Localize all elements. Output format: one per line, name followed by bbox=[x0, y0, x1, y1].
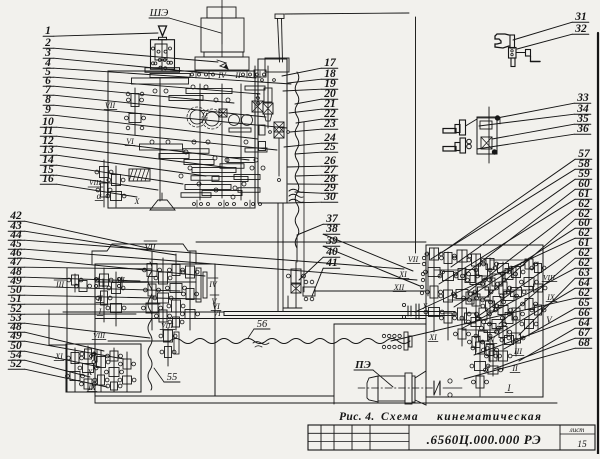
roman II label bbox=[234, 71, 241, 80]
feed box far-left shaft III group bbox=[49, 268, 122, 392]
svg-text:55: 55 bbox=[167, 372, 178, 383]
PE motor body bbox=[358, 371, 433, 405]
svg-text:52: 52 bbox=[10, 358, 22, 370]
svg-text:II: II bbox=[511, 364, 518, 373]
svg-text:IV: IV bbox=[486, 335, 496, 344]
svg-text:Схема: Схема bbox=[381, 411, 419, 423]
label 55 bbox=[154, 368, 180, 383]
label PE bbox=[354, 359, 393, 387]
lower feed box bbox=[66, 344, 141, 392]
svg-text:кинематическая: кинематическая bbox=[437, 411, 542, 423]
bed left diagonal bbox=[94, 396, 96, 403]
apron lower shafts bbox=[470, 336, 503, 396]
belt bracket bbox=[254, 58, 289, 77]
component 33-36 assembly bbox=[443, 107, 500, 163]
svg-text:25: 25 bbox=[323, 141, 336, 153]
svg-text:IX: IX bbox=[546, 293, 556, 302]
bed bottom line 2 bbox=[95, 402, 557, 404]
apron lower roman numerals bbox=[486, 335, 524, 393]
svg-text:VIII: VIII bbox=[543, 273, 556, 282]
svg-text:XII: XII bbox=[393, 283, 405, 292]
svg-text:VII: VII bbox=[145, 242, 157, 252]
belt drive arrow under motor bbox=[217, 60, 228, 69]
apron central extra gears bbox=[460, 264, 518, 345]
svg-text:30: 30 bbox=[323, 191, 336, 203]
feed cone gear cluster bbox=[142, 252, 187, 334]
svg-text:36: 36 bbox=[576, 123, 589, 135]
roman VIII near chain gear bbox=[160, 321, 175, 330]
bed bottom line 1 bbox=[97, 395, 334, 397]
svg-text:38: 38 bbox=[325, 223, 338, 235]
svg-text:VIII: VIII bbox=[89, 178, 102, 187]
motor compartment box bbox=[334, 324, 426, 404]
column x-box selector bbox=[263, 103, 273, 121]
roman VI label bbox=[125, 137, 135, 146]
svg-text:VI: VI bbox=[126, 137, 134, 146]
svg-text:16: 16 bbox=[42, 173, 54, 185]
motor ShE body bbox=[195, 0, 249, 70]
svg-text:IV: IV bbox=[217, 71, 227, 80]
headstock gear bars bbox=[132, 74, 268, 198]
svg-text:IX: IX bbox=[87, 383, 97, 392]
figure caption bbox=[339, 411, 542, 423]
gear on chain shaft bbox=[159, 328, 179, 366]
shaft lines in headstock bbox=[160, 66, 255, 201]
triple wave mark bbox=[289, 189, 303, 202]
roman IV label bbox=[217, 71, 227, 80]
line to top right bbox=[285, 13, 409, 14]
feed box outline bbox=[95, 264, 215, 396]
svg-text:II: II bbox=[96, 294, 103, 303]
input gear housing bbox=[145, 40, 180, 72]
feed rod VI bar bbox=[224, 312, 455, 316]
clutch small left bbox=[90, 350, 98, 362]
svg-text:1: 1 bbox=[45, 25, 51, 37]
svg-text:23: 23 bbox=[323, 118, 336, 130]
lead screw wavy line bbox=[170, 339, 410, 344]
svg-text:VIII: VIII bbox=[93, 331, 106, 340]
svg-text:ПЭ: ПЭ bbox=[354, 359, 371, 371]
leader labels 1-16 (headstock parts) bbox=[40, 25, 291, 197]
x-box 2 bbox=[274, 122, 284, 132]
svg-text:VII: VII bbox=[408, 255, 419, 264]
svg-text:31: 31 bbox=[574, 11, 587, 23]
apron box outline bbox=[426, 245, 543, 397]
column gear bars left bbox=[259, 125, 266, 151]
extra x-box gear engage bbox=[219, 109, 227, 117]
headstock bottom gear teeth marks bbox=[193, 200, 262, 207]
svg-text:VII: VII bbox=[105, 101, 116, 110]
svg-text:15: 15 bbox=[577, 440, 587, 450]
label 56 bbox=[248, 319, 270, 347]
apron tie lines bbox=[434, 260, 538, 330]
svg-text:68: 68 bbox=[578, 337, 590, 349]
leader labels 42-53 and 48-52 (feed box parts) bbox=[8, 210, 417, 387]
belt pulley top bbox=[275, 14, 284, 19]
lead screw straight part bbox=[92, 331, 170, 341]
svg-text:XI: XI bbox=[54, 352, 63, 361]
svg-text:Рис. 4.: Рис. 4. bbox=[339, 411, 375, 423]
headstock outline bbox=[108, 71, 255, 208]
left lower gear group VIII bbox=[88, 160, 141, 207]
leader labels 31-32 bbox=[513, 11, 589, 49]
svg-text:IV: IV bbox=[208, 280, 218, 289]
column lower vertical lines bbox=[278, 203, 283, 311]
vertical chain to 55 bbox=[148, 262, 152, 390]
leader labels 37-41 bbox=[297, 213, 420, 296]
hatched clutch block bbox=[129, 169, 150, 181]
clamp fork 31 bbox=[495, 34, 540, 67]
title block sheet label bbox=[569, 426, 587, 450]
arrow into input shaft bbox=[159, 26, 167, 40]
roman VII and left gear group bbox=[104, 88, 146, 135]
svg-text:III: III bbox=[55, 280, 64, 289]
headstock small circles bbox=[150, 85, 265, 199]
label ShE (main motor) bbox=[149, 7, 221, 33]
svg-text:XI: XI bbox=[398, 270, 407, 279]
leader labels 17-30 (drive parts) bbox=[282, 57, 338, 203]
shaft XII line bbox=[315, 290, 426, 292]
svg-text:XI: XI bbox=[428, 333, 437, 342]
motor coupling I bbox=[434, 379, 462, 397]
bottom support trapezoid bbox=[150, 193, 175, 210]
svg-text:лист: лист bbox=[569, 426, 585, 434]
headstock top gear teeth marks bbox=[191, 71, 266, 78]
tailstock vertical line bbox=[415, 17, 417, 253]
svg-text:III: III bbox=[513, 347, 522, 356]
vertical wavy chain line bbox=[295, 72, 299, 262]
paper edge right bbox=[597, 33, 599, 454]
feed horizontal shaft bbox=[95, 281, 196, 283]
apron roman numerals right bbox=[542, 273, 557, 325]
column feed shaft upper bbox=[257, 66, 276, 128]
svg-text:ШЭ: ШЭ bbox=[149, 7, 169, 19]
svg-text:56: 56 bbox=[257, 319, 268, 330]
svg-text:VIII: VIII bbox=[161, 321, 174, 330]
shaft X long line bbox=[63, 312, 426, 319]
clutch on shaft X bbox=[402, 302, 428, 319]
belt lines bbox=[278, 19, 283, 63]
split nut on lead screw bbox=[382, 332, 438, 350]
leader labels 57-68 (apron parts) bbox=[391, 148, 592, 379]
svg-text:9: 9 bbox=[45, 104, 51, 116]
column x-box 2 bbox=[269, 127, 290, 182]
title block doc number bbox=[427, 432, 542, 447]
title block grid bbox=[308, 425, 595, 450]
feed left stack II I bbox=[95, 268, 126, 326]
roman XI X IX labels bbox=[54, 352, 97, 392]
chain lower sprocket assembly bbox=[283, 262, 315, 308]
svg-text:VI: VI bbox=[212, 302, 220, 311]
apron gear stacks bbox=[424, 248, 547, 370]
carriage top line bbox=[196, 241, 426, 243]
saddle outline VII bbox=[92, 241, 196, 264]
thin control rod bbox=[303, 122, 305, 292]
apron roman numerals left bbox=[393, 252, 428, 296]
central gear pair bbox=[187, 107, 253, 129]
mid small x-box bbox=[252, 92, 263, 112]
leader labels 33-36 bbox=[477, 92, 591, 149]
right column box bbox=[258, 59, 287, 203]
svg-text:32: 32 bbox=[574, 23, 587, 35]
feed shafts IV V VI flange bbox=[181, 252, 222, 330]
lower gear stacks bbox=[66, 346, 137, 392]
svg-text:.6560Ц.000.000 РЭ: .6560Ц.000.000 РЭ bbox=[427, 432, 542, 447]
shaft VI label mid bbox=[211, 302, 221, 311]
svg-text:II: II bbox=[234, 71, 241, 80]
